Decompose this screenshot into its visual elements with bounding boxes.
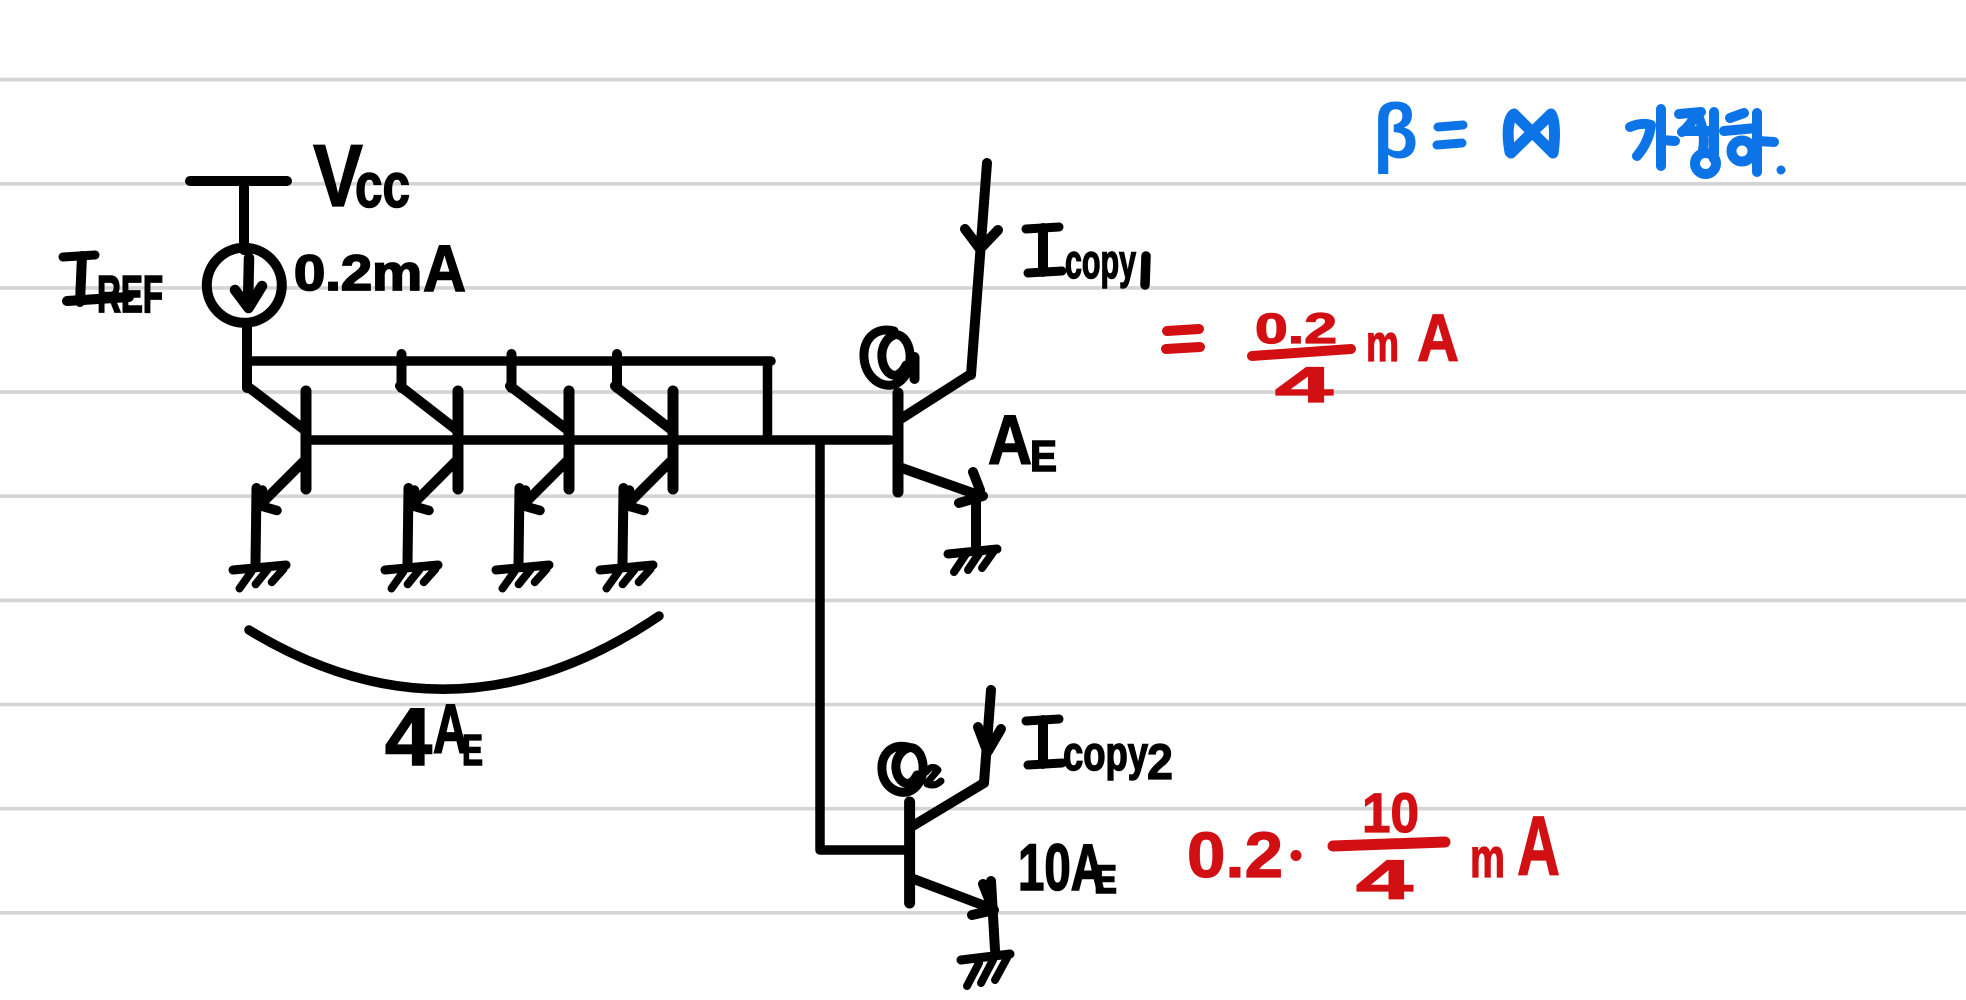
ground (QB emitter) — [385, 565, 438, 570]
infinity symbol (hand-drawn bowtie) — [1508, 114, 1554, 153]
transistor Q1 base bar — [893, 393, 904, 492]
svg-text:A: A — [988, 401, 1032, 479]
QA emitter with arrow — [259, 459, 306, 506]
QD emitter with arrow — [626, 459, 673, 506]
wire: Vcc terminal to current source — [239, 183, 249, 250]
QB emitter wire — [408, 488, 409, 564]
svg-text:4: 4 — [385, 692, 432, 783]
svg-text:4: 4 — [1275, 357, 1333, 413]
wire: Q2 collector up (Icopy2 branch) — [984, 690, 991, 783]
wire: collector bus tick to QD — [612, 354, 622, 388]
Q2 emitter with arrow — [911, 878, 993, 909]
svg-text:10A: 10A — [1018, 830, 1105, 904]
QB base bar — [453, 391, 464, 489]
transistor QD (unit 4 of 4AE) collector diagonal — [615, 386, 673, 431]
Q2 collector diagonal — [911, 783, 984, 827]
ground (Q1 emitter) — [948, 549, 997, 554]
Korean annotation: 가정하. — [1630, 109, 1786, 175]
wire: collector bus tick to QB — [397, 354, 407, 388]
equals sign (blue) — [1437, 125, 1463, 145]
svg-text:4: 4 — [1356, 848, 1413, 911]
transistor Q2 base bar — [904, 802, 915, 903]
transistor Q1 designator (script Q) — [864, 330, 915, 385]
ground (QC emitter) — [496, 565, 549, 570]
svg-text:2: 2 — [1147, 734, 1173, 790]
svg-text:m: m — [1366, 315, 1399, 373]
transistor QB (unit 2 of 4AE) collector diagonal — [400, 386, 458, 431]
svg-text:E: E — [1094, 858, 1117, 902]
label Icopy1: hand-drawn serif I — [1026, 227, 1059, 229]
red result for Icopy1: = 0.2/4 mA — [1166, 329, 1351, 356]
wire: collector bus right end down to base bus (diode connection) — [763, 361, 773, 438]
wire: current source output down to collector bus — [242, 323, 252, 388]
svg-text:10: 10 — [1362, 781, 1419, 844]
svg-text:A: A — [1517, 799, 1560, 893]
svg-text:cc: cc — [355, 151, 410, 221]
Vcc supply terminal bar — [190, 176, 287, 186]
ground (Q2 emitter) — [961, 954, 1010, 960]
svg-text:REF: REF — [97, 266, 163, 324]
svg-text:m: m — [1470, 826, 1505, 889]
svg-text:E: E — [462, 726, 483, 775]
fraction bar of 0.2/4 — [1252, 349, 1351, 356]
base bus wire — [306, 435, 890, 445]
label IREF: hand-drawn serif I — [63, 255, 95, 257]
svg-text:0.2m: 0.2m — [294, 245, 422, 301]
svg-text:β: β — [1373, 87, 1418, 175]
svg-text:copy: copy — [1063, 728, 1148, 781]
wire: base bus junction down and right to Q2 base — [820, 442, 908, 850]
QC emitter wire — [519, 488, 520, 564]
svg-text:A: A — [1417, 301, 1459, 376]
brace arc spanning 4AE transistors — [249, 616, 659, 689]
ground (QD emitter) — [600, 565, 653, 570]
svg-text:0.2: 0.2 — [1255, 305, 1337, 353]
svg-text:E: E — [1030, 432, 1057, 481]
transistor QA (unit 1 of 4AE), collector from current source wire — [247, 386, 306, 431]
QD base bar — [668, 391, 679, 489]
QA base bar — [301, 391, 312, 489]
Q1 emitter with arrow — [899, 467, 981, 496]
wire: collector bus tick to QC — [507, 354, 517, 388]
svg-text:0.2: 0.2 — [1187, 819, 1283, 891]
Q2 emitter wire — [991, 881, 995, 950]
Q1 emitter wire — [971, 501, 981, 546]
Q1 collector diagonal — [899, 374, 971, 420]
QC emitter with arrow — [522, 459, 569, 506]
transistor QC (unit 3 of 4AE) collector diagonal — [510, 386, 569, 431]
ground (QA emitter) — [233, 565, 286, 570]
fraction bar of 10/4 — [1333, 842, 1445, 846]
current source IREF (circle) — [207, 248, 282, 323]
transistor Q2 designator (script Q) — [882, 746, 941, 792]
QC base bar — [564, 391, 575, 489]
current source arrow (downward) — [248, 258, 249, 305]
label Icopy2: hand-drawn serif I — [1026, 719, 1059, 721]
QB emitter with arrow — [411, 459, 458, 506]
red multiplication dot — [1291, 850, 1302, 861]
equals sign (red) — [1166, 329, 1200, 349]
collector bus wire (top rail) — [247, 356, 771, 366]
Icopy1 current arrow — [965, 229, 998, 249]
QA emitter wire — [256, 488, 257, 564]
svg-text:copy: copy — [1065, 236, 1136, 289]
Icopy2 current arrow — [978, 727, 1001, 752]
QD emitter wire — [623, 488, 624, 564]
svg-text:A: A — [423, 231, 466, 305]
wire: Q1 collector up (Icopy1 branch) — [971, 163, 987, 375]
